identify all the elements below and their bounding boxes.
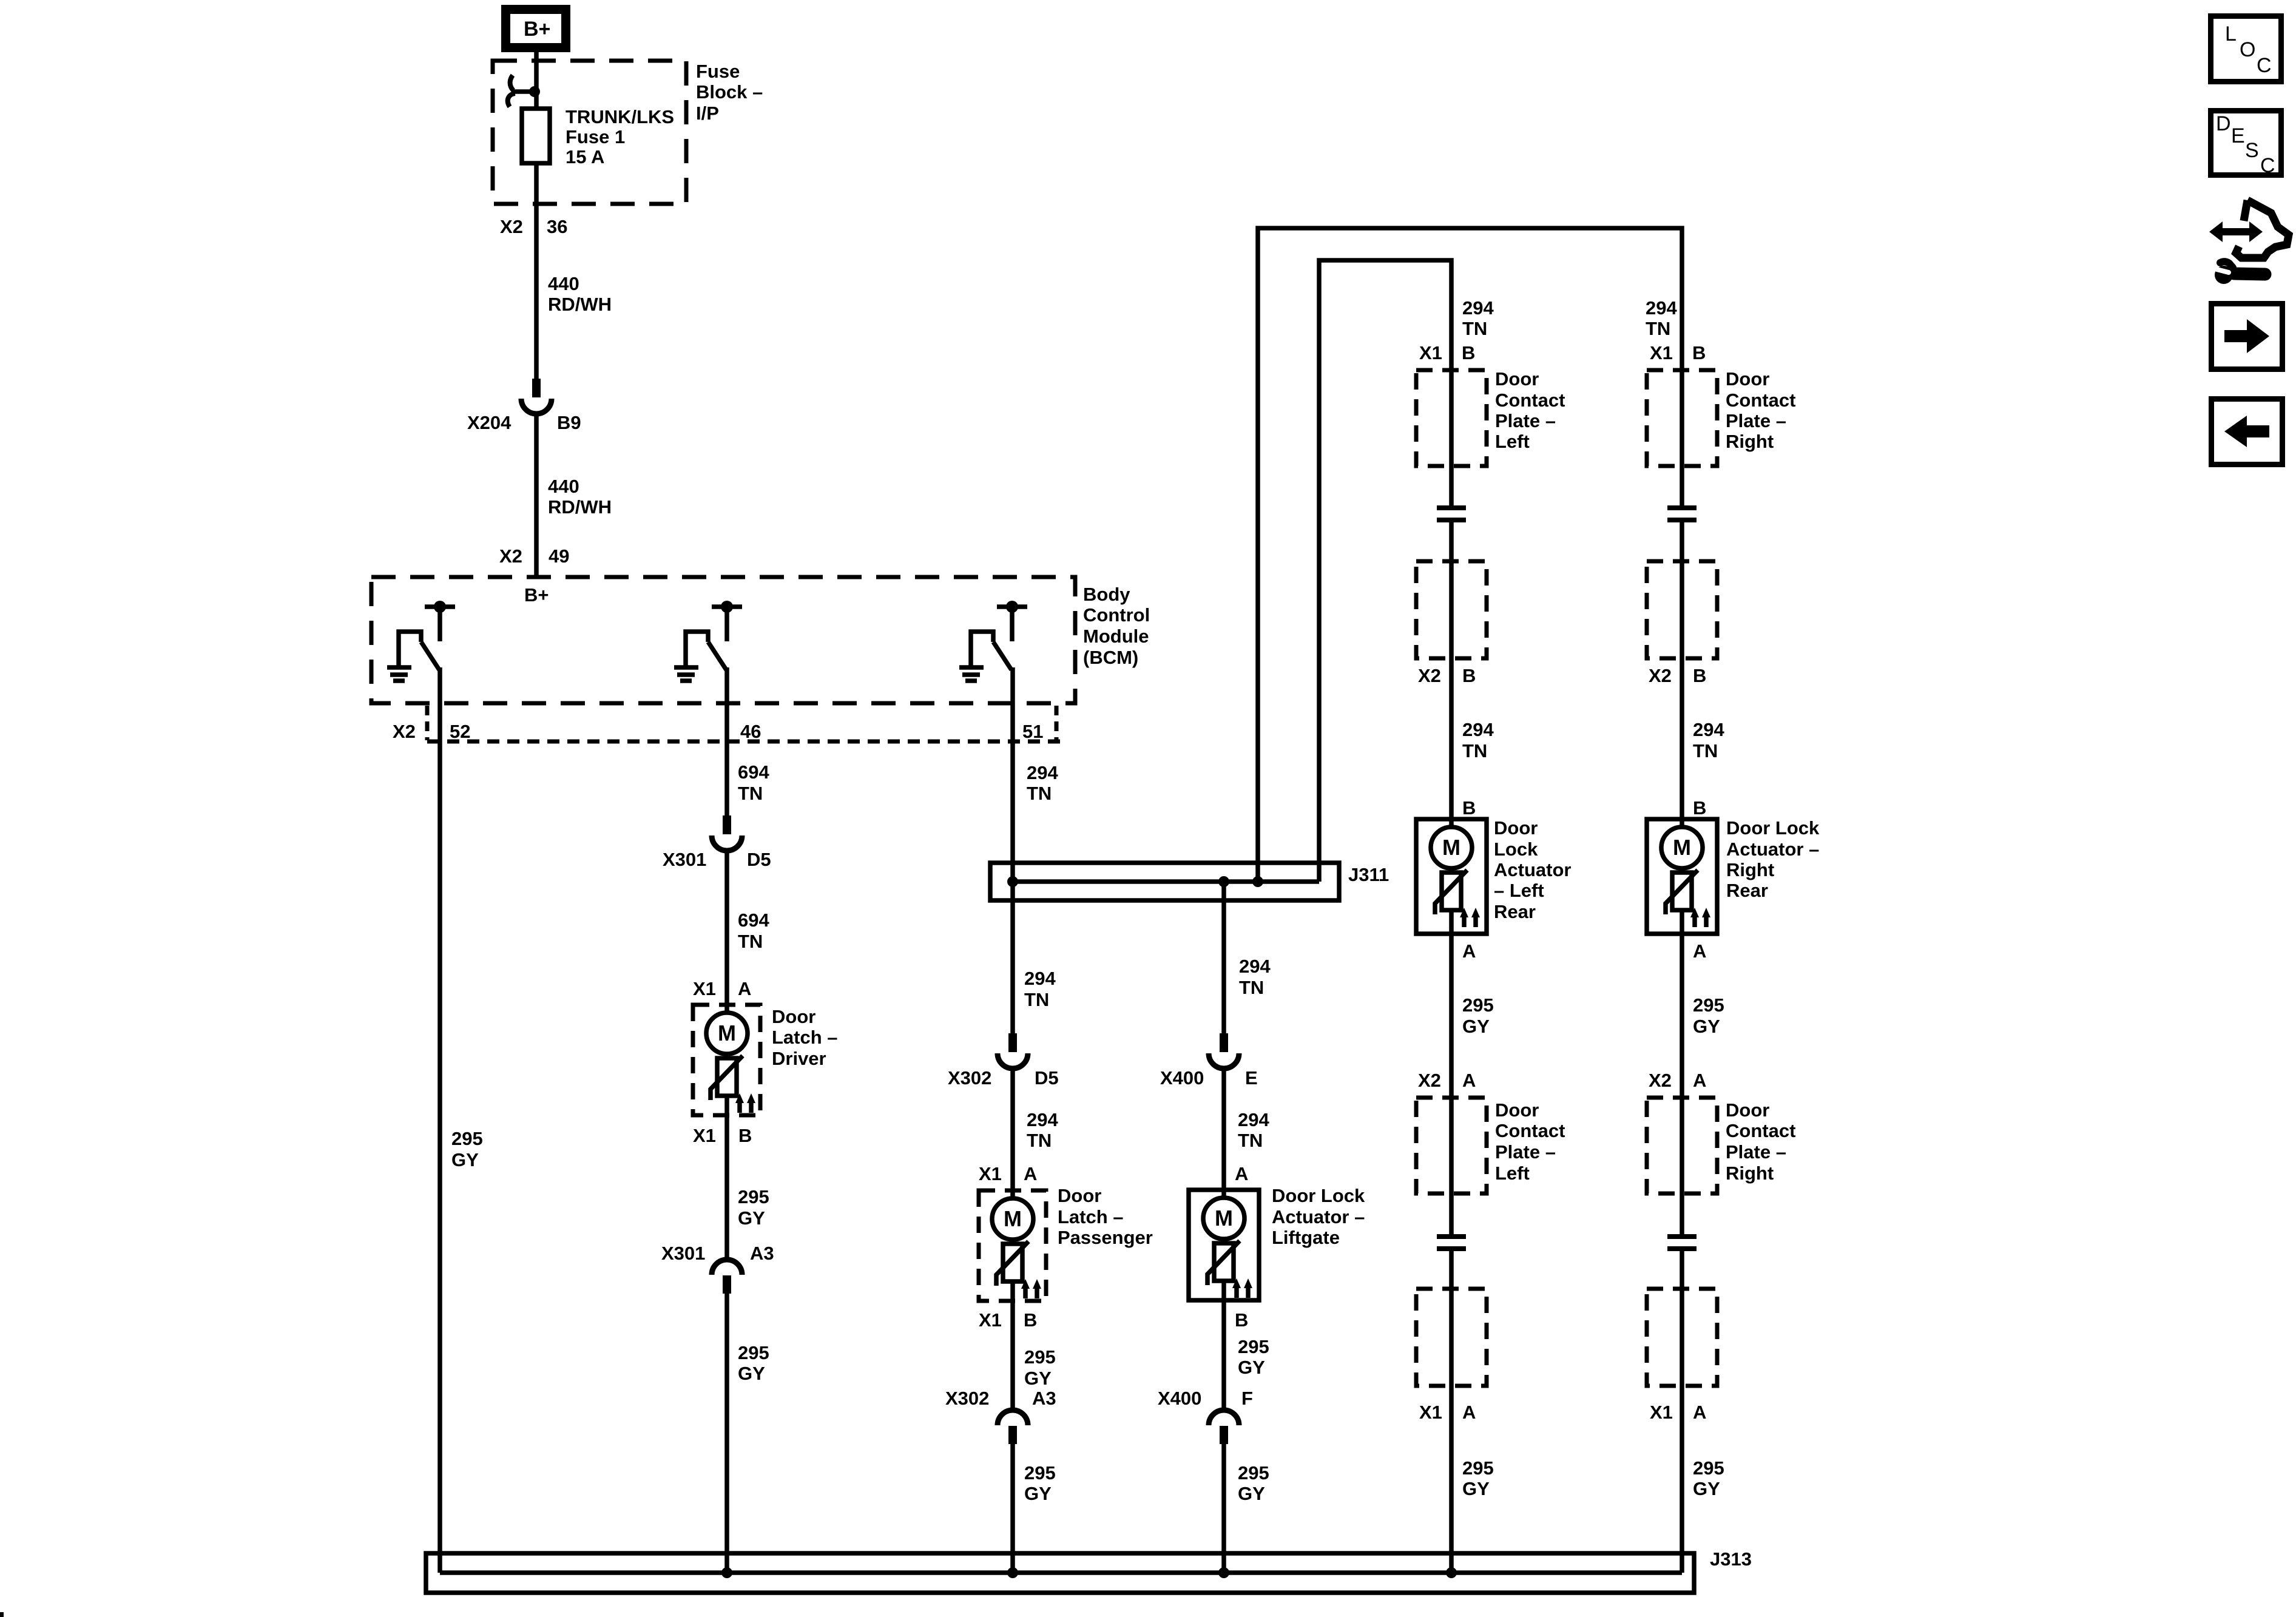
svg-text:A: A: [1693, 940, 1706, 962]
svg-text:GY: GY: [1024, 1368, 1052, 1389]
svg-text:C: C: [2257, 54, 2272, 77]
direction arrows of Door Lock Actuator Liftgate: [1232, 1278, 1252, 1298]
svg-text:X2: X2: [393, 721, 416, 742]
svg-text:Door: Door: [1058, 1185, 1101, 1206]
wire fuse to X204: [534, 163, 539, 379]
svg-text:GY: GY: [1462, 1016, 1490, 1037]
pin labels X2 B (left rear): [1418, 665, 1476, 686]
svg-text:C: C: [2260, 154, 2275, 177]
wire label 294 TN: [1027, 762, 1058, 804]
motor M of Door Latch Passenger: [992, 1198, 1033, 1240]
wire label 694 TN: [738, 761, 769, 804]
svg-text:Block –: Block –: [696, 81, 763, 103]
pin labels X2 B (right rear): [1649, 665, 1706, 686]
wire to J313: [1221, 1443, 1226, 1573]
wire label 295 GY: [1024, 1462, 1056, 1504]
wire segment upper left rear: [1449, 520, 1454, 828]
direction arrows of Door Lock Actuator Left Rear: [1460, 908, 1480, 927]
svg-text:294: 294: [1693, 719, 1724, 740]
Door Contact Plate lower dashed box 2 (left): [1416, 1289, 1487, 1386]
wire label 440 RD/WH: [548, 273, 612, 315]
motor M of Door Lock Actuator Left Rear: [1431, 827, 1472, 868]
direction arrows of Door Lock Actuator Right Rear: [1690, 908, 1710, 927]
BCM pin labels X2 52 46 51: [393, 721, 1043, 742]
BCM connector face dashes: [427, 706, 1060, 741]
svg-text:Door: Door: [1726, 368, 1769, 390]
svg-text:GY: GY: [1238, 1483, 1265, 1504]
svg-text:A3: A3: [750, 1243, 774, 1264]
svg-text:X1: X1: [693, 978, 716, 999]
Door Contact Plate lower label (Left): [1495, 1099, 1565, 1184]
Door Lock Actuator Liftgate label: [1272, 1185, 1365, 1248]
svg-text:Door: Door: [1495, 368, 1539, 390]
svg-text:A: A: [1462, 1402, 1476, 1423]
svg-text:Passenger: Passenger: [1058, 1227, 1153, 1248]
svg-text:B: B: [1462, 665, 1476, 686]
svg-text:294: 294: [1646, 297, 1677, 319]
svg-text:A3: A3: [1032, 1388, 1056, 1409]
svg-text:Control: Control: [1083, 604, 1150, 626]
svg-text:440: 440: [548, 476, 579, 497]
pin labels X2 36: [500, 216, 567, 237]
ground symbol in BCM (output 51): [959, 667, 984, 681]
Door Contact Plate upper dashed box 2 (left): [1416, 561, 1487, 658]
svg-text:M: M: [718, 1021, 736, 1045]
svg-text:295: 295: [1462, 994, 1494, 1016]
svg-text:B: B: [1462, 797, 1476, 819]
svg-text:D: D: [2216, 112, 2231, 135]
svg-text:TN: TN: [1462, 318, 1487, 339]
svg-text:Door: Door: [772, 1006, 815, 1027]
svg-text:TN: TN: [1238, 1130, 1263, 1151]
BCM driver switch output 51: [971, 601, 1027, 670]
wire to door latch driver: [724, 851, 729, 1013]
svg-text:Fuse: Fuse: [696, 61, 740, 82]
svg-text:X301: X301: [663, 849, 706, 870]
svg-text:RD/WH: RD/WH: [548, 496, 612, 518]
separable contact right rear lower: [1667, 1237, 1697, 1249]
svg-text:RD/WH: RD/WH: [548, 294, 612, 315]
Door Lock Actuator Left Rear label: [1494, 817, 1571, 922]
wire label 294 TN (left rear feed): [1462, 297, 1494, 339]
inline connector X301 pin D5: [712, 815, 742, 851]
svg-text:B+: B+: [524, 18, 550, 41]
forward arrow icon box: [2212, 304, 2283, 370]
Door Contact Plate upper dashed box 2 (right): [1647, 561, 1717, 658]
svg-text:295: 295: [451, 1128, 483, 1149]
Door Latch Driver label: [772, 1006, 838, 1069]
pin labels X1 B (right rear): [1650, 342, 1706, 363]
fuse label: [566, 106, 674, 167]
svg-text:B: B: [1462, 342, 1475, 363]
svg-text:A: A: [1235, 1163, 1248, 1184]
BCM label: [1083, 584, 1150, 668]
pin labels X1 B: [979, 1309, 1037, 1331]
svg-text:X2: X2: [1418, 665, 1441, 686]
svg-text:294: 294: [1239, 956, 1271, 977]
motor M of Door Latch Driver: [706, 1013, 748, 1054]
direction arrows of Door Latch Passenger: [1021, 1279, 1041, 1298]
direction arrows of Door Latch Driver: [735, 1093, 755, 1113]
svg-text:49: 49: [549, 545, 569, 567]
wire label 294 TN: [1024, 968, 1056, 1010]
wire label 295 GY: [451, 1128, 483, 1170]
svg-text:A: A: [1024, 1163, 1037, 1184]
svg-text:Fuse 1: Fuse 1: [566, 126, 625, 147]
svg-text:X1: X1: [693, 1125, 716, 1146]
svg-text:X1: X1: [979, 1163, 1002, 1184]
svg-text:Contact: Contact: [1495, 390, 1565, 411]
page artifact dot bottom-left: [0, 1612, 4, 1617]
svg-text:46: 46: [740, 721, 761, 742]
Door Lock Actuator - Left Rear box: [1416, 819, 1487, 934]
svg-text:J311: J311: [1348, 864, 1389, 885]
svg-text:GY: GY: [1693, 1478, 1720, 1499]
inline connector X301 pin A3: [712, 1260, 742, 1294]
svg-text:B: B: [1024, 1309, 1037, 1331]
wire label 440 RD/WH: [548, 476, 612, 518]
svg-text:X2: X2: [1649, 665, 1672, 686]
LOC icon box: [2211, 16, 2281, 82]
wire label 295 GY: [1238, 1462, 1269, 1504]
svg-text:Plate –: Plate –: [1726, 410, 1786, 431]
Door Latch Passenger label: [1058, 1185, 1153, 1248]
BCM driver switch output 46: [686, 601, 742, 670]
svg-text:Left: Left: [1495, 431, 1530, 452]
Door Latch - Passenger dashed box: [979, 1190, 1046, 1301]
svg-text:Rear: Rear: [1494, 901, 1536, 922]
wire: [1010, 1239, 1015, 1244]
wire to J313: [724, 1292, 729, 1573]
svg-text:TN: TN: [1646, 318, 1670, 339]
DESC icon box: [2211, 111, 2281, 178]
svg-text:Plate –: Plate –: [1726, 1141, 1786, 1163]
Body Control Module dashed box: [371, 577, 1075, 703]
svg-text:Actuator –: Actuator –: [1726, 839, 1819, 860]
svg-text:E: E: [1245, 1067, 1258, 1089]
svg-text:295: 295: [1024, 1346, 1056, 1368]
wire riser to right rear: [1258, 228, 1682, 882]
svg-text:TN: TN: [738, 931, 763, 952]
svg-text:294: 294: [1462, 719, 1494, 740]
wire label 295 GY: [1024, 1346, 1056, 1389]
Door Contact Plate upper label (Right): [1726, 368, 1795, 452]
wire label 294 TN: [1027, 1109, 1058, 1151]
wire label 294 TN: [1239, 956, 1271, 998]
svg-text:Door Lock: Door Lock: [1272, 1185, 1365, 1206]
svg-text:M: M: [1215, 1206, 1233, 1230]
wire segment lower right rear: [1680, 1249, 1684, 1573]
svg-text:TN: TN: [1462, 740, 1487, 761]
svg-text:Right: Right: [1726, 859, 1774, 880]
svg-text:X2: X2: [1418, 1070, 1441, 1091]
svg-text:X400: X400: [1160, 1067, 1204, 1089]
svg-text:A: A: [1462, 940, 1476, 962]
wire X204 to BCM: [534, 414, 539, 577]
pin labels X1 B (left rear): [1419, 342, 1475, 363]
wire label 295 GY: [738, 1186, 769, 1229]
wire riser to left rear: [1319, 260, 1451, 882]
B+ power symbol box: [506, 10, 566, 48]
svg-text:Driver: Driver: [772, 1048, 826, 1069]
inline connector X204 pin B9: [521, 379, 552, 414]
svg-text:694: 694: [738, 761, 769, 783]
svg-text:295: 295: [1693, 994, 1724, 1016]
svg-text:295: 295: [1024, 1462, 1056, 1484]
PTC thermistor of Door Lock Actuator Liftgate: [1207, 1241, 1240, 1285]
connector labels X400 F: [1158, 1388, 1253, 1409]
svg-text:X2: X2: [499, 545, 522, 567]
BCM driver switch output 52: [399, 601, 455, 670]
inline connector X302 pin A3: [998, 1410, 1028, 1444]
svg-text:B: B: [1693, 797, 1706, 819]
diagnostic tool icon (double arrow): [2209, 221, 2263, 242]
svg-text:GY: GY: [738, 1207, 765, 1229]
svg-text:B: B: [1235, 1309, 1248, 1331]
wire to liftgate actuator: [1221, 1068, 1226, 1199]
svg-text:294: 294: [1027, 762, 1058, 783]
svg-text:B: B: [1692, 342, 1706, 363]
svg-text:X204: X204: [467, 412, 512, 433]
svg-text:GY: GY: [1024, 1483, 1052, 1504]
svg-text:295: 295: [738, 1342, 769, 1363]
svg-text:694: 694: [738, 910, 769, 931]
svg-text:Contact: Contact: [1495, 1120, 1565, 1141]
svg-text:294: 294: [1024, 968, 1056, 989]
svg-text:Liftgate: Liftgate: [1272, 1227, 1340, 1248]
svg-text:F: F: [1241, 1388, 1253, 1409]
svg-text:Contact: Contact: [1726, 1120, 1795, 1141]
svg-text:X1: X1: [979, 1309, 1002, 1331]
pin labels X1 A: [979, 1163, 1037, 1184]
wire label 294 TN: [1238, 1109, 1269, 1151]
svg-text:X302: X302: [945, 1388, 989, 1409]
svg-text:15 A: 15 A: [566, 146, 604, 167]
inline connector X400 pin F: [1209, 1410, 1239, 1444]
wire BCM 51 down (294 TN): [1010, 667, 1015, 1033]
connector labels X302 A3: [945, 1388, 1056, 1409]
svg-text:O: O: [2240, 38, 2255, 61]
svg-text:TN: TN: [1027, 783, 1052, 804]
svg-text:M: M: [1004, 1206, 1022, 1231]
svg-text:TN: TN: [1239, 977, 1264, 998]
svg-text:TN: TN: [1693, 740, 1718, 761]
pin labels X2 A (left rear): [1418, 1070, 1476, 1091]
Door Lock Actuator - Liftgate box: [1189, 1190, 1259, 1300]
svg-text:440: 440: [548, 273, 579, 294]
ground symbol in BCM (output 46): [674, 667, 698, 681]
connector labels X301 D5: [663, 849, 771, 870]
svg-text:S: S: [2245, 139, 2259, 162]
pin labels X2 A (right rear): [1649, 1070, 1706, 1091]
svg-text:B+: B+: [524, 584, 549, 606]
inline connector X400 pin E: [1209, 1033, 1239, 1068]
wire BCM 46 down (694 TN): [724, 667, 729, 815]
Door Contact Plate lower dashed box 1 (right): [1647, 1098, 1717, 1193]
svg-text:Right: Right: [1726, 431, 1774, 452]
svg-text:Door: Door: [1494, 817, 1538, 839]
fuse block label: [696, 61, 763, 124]
svg-text:L: L: [2225, 22, 2237, 46]
svg-text:X1: X1: [1650, 1402, 1673, 1423]
pin labels X2 49: [499, 545, 569, 567]
wire: [724, 1053, 729, 1058]
diagnostic tool icon (connector outline): [2236, 200, 2289, 258]
svg-text:295: 295: [1693, 1457, 1724, 1479]
svg-text:M: M: [1673, 835, 1691, 860]
svg-text:X400: X400: [1158, 1388, 1201, 1409]
Door Latch - Driver dashed box: [693, 1005, 760, 1115]
pin labels X1 A (right rear): [1650, 1402, 1706, 1423]
wire: [1221, 1238, 1226, 1243]
svg-text:295: 295: [1238, 1336, 1269, 1357]
ground symbol in BCM (output 52): [387, 667, 411, 681]
svg-text:– Left: – Left: [1494, 880, 1544, 901]
pin labels X1 A: [693, 978, 751, 999]
svg-text:GY: GY: [451, 1149, 479, 1170]
svg-text:294: 294: [1238, 1109, 1269, 1130]
svg-text:E: E: [2231, 124, 2245, 147]
Door Contact Plate lower label (Right): [1726, 1099, 1795, 1184]
svg-text:GY: GY: [738, 1363, 765, 1384]
connector labels X302 D5: [948, 1067, 1059, 1089]
wire BCM 52 to J313 (295 GY): [437, 667, 442, 1573]
wire label 294 TN (left rear): [1462, 719, 1494, 761]
svg-text:Right: Right: [1726, 1163, 1774, 1184]
Door Contact Plate upper dashed box 1 (left): [1416, 370, 1487, 466]
wire J311 to liftgate (294 TN): [1221, 882, 1226, 1033]
svg-text:J313: J313: [1710, 1548, 1752, 1570]
svg-text:TN: TN: [1024, 989, 1049, 1010]
back arrow icon box: [2212, 399, 2283, 465]
svg-text:TN: TN: [1027, 1130, 1052, 1151]
wire label 295 GY (right rear bottom): [1693, 1457, 1724, 1499]
svg-text:X302: X302: [948, 1067, 991, 1089]
fuse F1 TRUNK/LKS 15A: [522, 109, 550, 163]
wire label 294 TN (right rear): [1693, 719, 1724, 761]
svg-text:B9: B9: [557, 412, 581, 433]
svg-text:B: B: [1693, 665, 1706, 686]
svg-text:Latch –: Latch –: [1058, 1206, 1124, 1227]
diagnostic tool icon (wrench): [2212, 262, 2265, 284]
wire: [724, 1096, 729, 1258]
svg-text:Lock: Lock: [1494, 839, 1538, 860]
PTC thermistor of Door Latch Driver: [711, 1056, 743, 1100]
wire segment mid right rear: [1680, 910, 1684, 1237]
svg-text:M: M: [1442, 835, 1460, 860]
svg-text:A: A: [738, 978, 751, 999]
separable contact left rear upper: [1437, 508, 1466, 520]
PTC thermistor of Door Lock Actuator Right Rear: [1666, 870, 1698, 914]
svg-text:D5: D5: [747, 849, 771, 870]
svg-text:Door Lock: Door Lock: [1726, 817, 1820, 839]
PTC thermistor of Door Latch Passenger: [996, 1241, 1028, 1286]
svg-text:D5: D5: [1035, 1067, 1059, 1089]
Door Contact Plate upper dashed box 1 (right): [1647, 370, 1717, 466]
wire label 295 GY (right rear): [1693, 994, 1724, 1037]
svg-text:B: B: [738, 1125, 752, 1146]
svg-text:X1: X1: [1419, 342, 1442, 363]
svg-text:Plate –: Plate –: [1495, 410, 1556, 431]
svg-text:Rear: Rear: [1726, 880, 1768, 901]
separable contact left rear lower: [1437, 1237, 1466, 1249]
Door Contact Plate lower dashed box 2 (right): [1647, 1289, 1717, 1386]
svg-text:X1: X1: [1650, 342, 1673, 363]
svg-text:Contact: Contact: [1726, 390, 1795, 411]
wire: [1010, 1281, 1015, 1409]
svg-text:X2: X2: [1649, 1070, 1672, 1091]
wire segment upper right rear: [1680, 520, 1684, 828]
Door Lock Actuator - Right Rear box: [1647, 819, 1717, 934]
PTC thermistor of Door Lock Actuator Left Rear: [1435, 870, 1467, 914]
svg-text:A: A: [1462, 1070, 1476, 1091]
svg-text:A: A: [1693, 1070, 1706, 1091]
svg-text:GY: GY: [1238, 1357, 1265, 1378]
wire: [1449, 868, 1454, 873]
svg-text:Module: Module: [1083, 626, 1149, 647]
Door Contact Plate upper label (Left): [1495, 368, 1565, 452]
svg-text:Door: Door: [1726, 1099, 1769, 1121]
svg-text:295: 295: [1462, 1457, 1494, 1479]
svg-text:TRUNK/LKS: TRUNK/LKS: [566, 106, 674, 127]
wire label 295 GY (left rear): [1462, 994, 1494, 1037]
wire: [1680, 868, 1684, 873]
svg-text:295: 295: [1238, 1462, 1269, 1484]
splice pack J313: [426, 1553, 1694, 1593]
pin labels X1 A (left rear): [1419, 1402, 1476, 1423]
wire to J313: [1010, 1443, 1015, 1573]
wire label 295 GY (left rear bottom): [1462, 1457, 1494, 1499]
wire segment lower left rear: [1449, 1249, 1454, 1573]
Door Lock Actuator Right Rear label: [1726, 817, 1820, 901]
svg-text:36: 36: [547, 216, 567, 237]
connector labels X301 A3: [661, 1243, 774, 1264]
wire: [1221, 1281, 1226, 1409]
svg-text:52: 52: [450, 721, 470, 742]
wire label 295 GY: [738, 1342, 769, 1384]
wire label 294 TN (right rear feed): [1646, 297, 1677, 339]
svg-text:Latch –: Latch –: [772, 1027, 838, 1048]
separable contact right rear upper: [1667, 508, 1697, 520]
svg-text:X301: X301: [661, 1243, 705, 1264]
svg-text:51: 51: [1022, 721, 1043, 742]
svg-text:Door: Door: [1495, 1099, 1539, 1121]
splice pack J311: [990, 863, 1339, 900]
svg-text:Plate –: Plate –: [1495, 1141, 1556, 1163]
pin labels X1 B: [693, 1125, 752, 1146]
wire label 295 GY: [1238, 1336, 1269, 1378]
wire to door latch passenger: [1010, 1068, 1015, 1199]
svg-text:Body: Body: [1083, 584, 1130, 605]
svg-text:295: 295: [738, 1186, 769, 1207]
svg-text:GY: GY: [1462, 1478, 1490, 1499]
svg-text:(BCM): (BCM): [1083, 647, 1138, 668]
svg-text:I/P: I/P: [696, 103, 719, 124]
svg-text:A: A: [1693, 1402, 1706, 1423]
wire segment mid left rear: [1449, 910, 1454, 1237]
svg-text:X2: X2: [500, 216, 523, 237]
connector labels X204 B9: [467, 412, 581, 433]
svg-text:294: 294: [1027, 1109, 1058, 1130]
fuse holder clip: [508, 75, 540, 107]
svg-text:TN: TN: [738, 783, 763, 804]
wire label 694 TN: [738, 910, 769, 952]
Door Contact Plate lower dashed box 1 (left): [1416, 1098, 1487, 1193]
svg-text:Actuator: Actuator: [1494, 859, 1571, 880]
Fuse Block - I/P dashed box: [493, 61, 686, 204]
motor M of Door Lock Actuator Liftgate: [1203, 1198, 1244, 1239]
svg-text:X1: X1: [1419, 1402, 1442, 1423]
